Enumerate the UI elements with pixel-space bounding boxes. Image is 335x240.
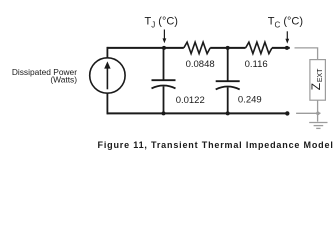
wire gray ZEXT bottom (317, 100, 319, 121)
node dot C2 bottom (226, 111, 230, 115)
wire left vertical (current source leads) (106, 47, 108, 115)
svg-text:0.0848: 0.0848 (186, 59, 215, 70)
wire gray bottom horizontal (296, 112, 320, 114)
svg-text:0.0122: 0.0122 (176, 95, 205, 106)
impedance ZEXT box (310, 60, 326, 101)
svg-text:TC (°C): TC (°C) (268, 16, 303, 30)
node TC arrow (286, 31, 288, 39)
capacitor C2 0.249 (227, 48, 229, 81)
resistor R1 0.0848 (184, 42, 210, 53)
svg-text:0.116: 0.116 (245, 59, 268, 70)
svg-text:TJ (°C): TJ (°C) (145, 16, 178, 30)
node dot C1 bottom (162, 111, 166, 115)
wire bottom rail (107, 112, 287, 114)
resistor R2 0.116 (246, 42, 272, 53)
node TJ junction dot (162, 46, 166, 50)
node dot bottom rail right end (285, 111, 289, 115)
node TJ arrow (163, 30, 165, 39)
current source I1 (Dissipated Power) (90, 58, 125, 93)
svg-text:0.249: 0.249 (238, 95, 262, 106)
ground (309, 123, 327, 129)
wire gray top to ZEXT (295, 48, 318, 60)
svg-text:(Watts): (Watts) (50, 75, 77, 85)
node gray junction dot (316, 112, 320, 116)
svg-text:Figure 11, Transient Thermal I: Figure 11, Transient Thermal Impedance M… (98, 140, 334, 150)
node TC junction dot (285, 46, 289, 50)
capacitor C1 0.0122 (163, 48, 165, 80)
node dot R1/R2 junction (226, 46, 230, 50)
wire top rail (107, 47, 289, 49)
